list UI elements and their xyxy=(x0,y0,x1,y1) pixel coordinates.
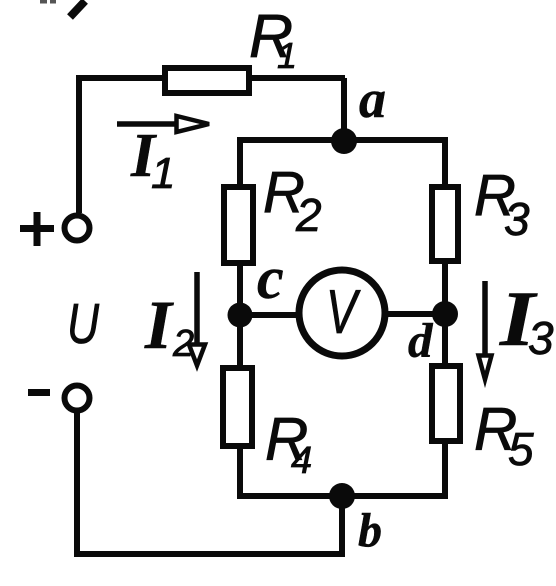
svg-text:U: U xyxy=(67,292,100,356)
svg-text:I: I xyxy=(144,287,174,363)
svg-text:1: 1 xyxy=(151,149,175,198)
svg-text:b: b xyxy=(358,504,382,557)
svg-text:2: 2 xyxy=(295,189,322,241)
svg-text:a: a xyxy=(359,69,386,129)
svg-text:3: 3 xyxy=(504,193,530,245)
svg-text:d: d xyxy=(408,313,434,368)
svg-text:c: c xyxy=(257,245,284,311)
svg-text:5: 5 xyxy=(508,423,534,475)
svg-text:1: 1 xyxy=(277,35,297,76)
svg-text:4: 4 xyxy=(291,440,312,482)
svg-text:3: 3 xyxy=(528,312,554,364)
svg-text:V: V xyxy=(326,278,361,347)
svg-text:2: 2 xyxy=(172,323,194,365)
